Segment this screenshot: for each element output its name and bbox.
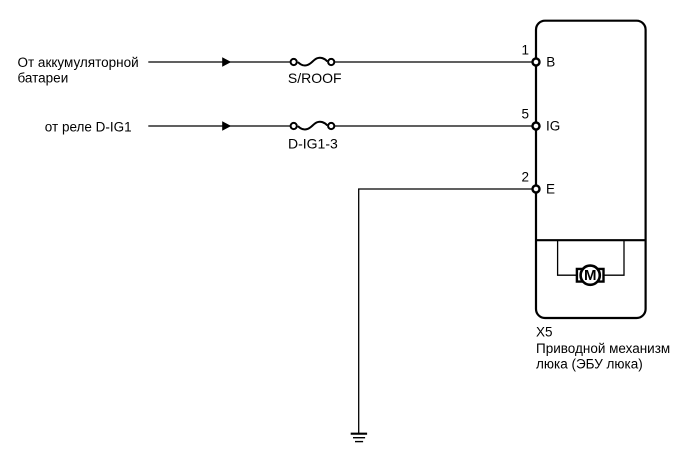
ECU box X5 (536, 21, 646, 318)
wire from pin E to ground (359, 189, 532, 433)
wire loop to motor (558, 241, 577, 275)
svg-text:X5: X5 (536, 325, 553, 340)
svg-text:IG: IG (546, 118, 560, 133)
arrow on relay wire (222, 121, 231, 130)
svg-text:2: 2 (521, 169, 529, 184)
fuse D-IG1-3 (291, 122, 335, 130)
svg-text:люка (ЭБУ люка): люка (ЭБУ люка) (536, 357, 643, 372)
pin 5 IG (521, 106, 560, 133)
wire from battery text to fuse S/ROOF (148, 61, 290, 63)
svg-text:S/ROOF: S/ROOF (288, 70, 342, 86)
wire from relay text to fuse D-IG1-3 (148, 125, 290, 127)
divider line inside box (536, 239, 646, 241)
pin 2 E (521, 169, 555, 196)
connector label X5 (536, 325, 670, 372)
svg-text:От аккумуляторной: От аккумуляторной (18, 55, 139, 70)
svg-text:5: 5 (521, 106, 529, 121)
motor M (577, 266, 604, 285)
ground (351, 434, 367, 442)
svg-text:D-IG1-3: D-IG1-3 (288, 135, 338, 151)
svg-text:M: M (584, 267, 597, 284)
svg-text:от реле D-IG1: от реле D-IG1 (45, 119, 132, 134)
svg-text:E: E (546, 181, 555, 196)
wire from fuse D-IG1-3 to pin IG (335, 125, 532, 127)
wire from fuse S/ROOF to pin B (335, 61, 532, 63)
svg-text:1: 1 (521, 42, 529, 57)
svg-text:B: B (546, 54, 555, 69)
arrow on battery wire (222, 57, 231, 66)
svg-text:батареи: батареи (18, 71, 69, 86)
pin 1 B (521, 42, 555, 69)
svg-text:Приводной механизм: Приводной механизм (536, 341, 670, 356)
node label "От аккумуляторной батареи" (18, 55, 139, 86)
fuse S/ROOF (291, 58, 335, 66)
